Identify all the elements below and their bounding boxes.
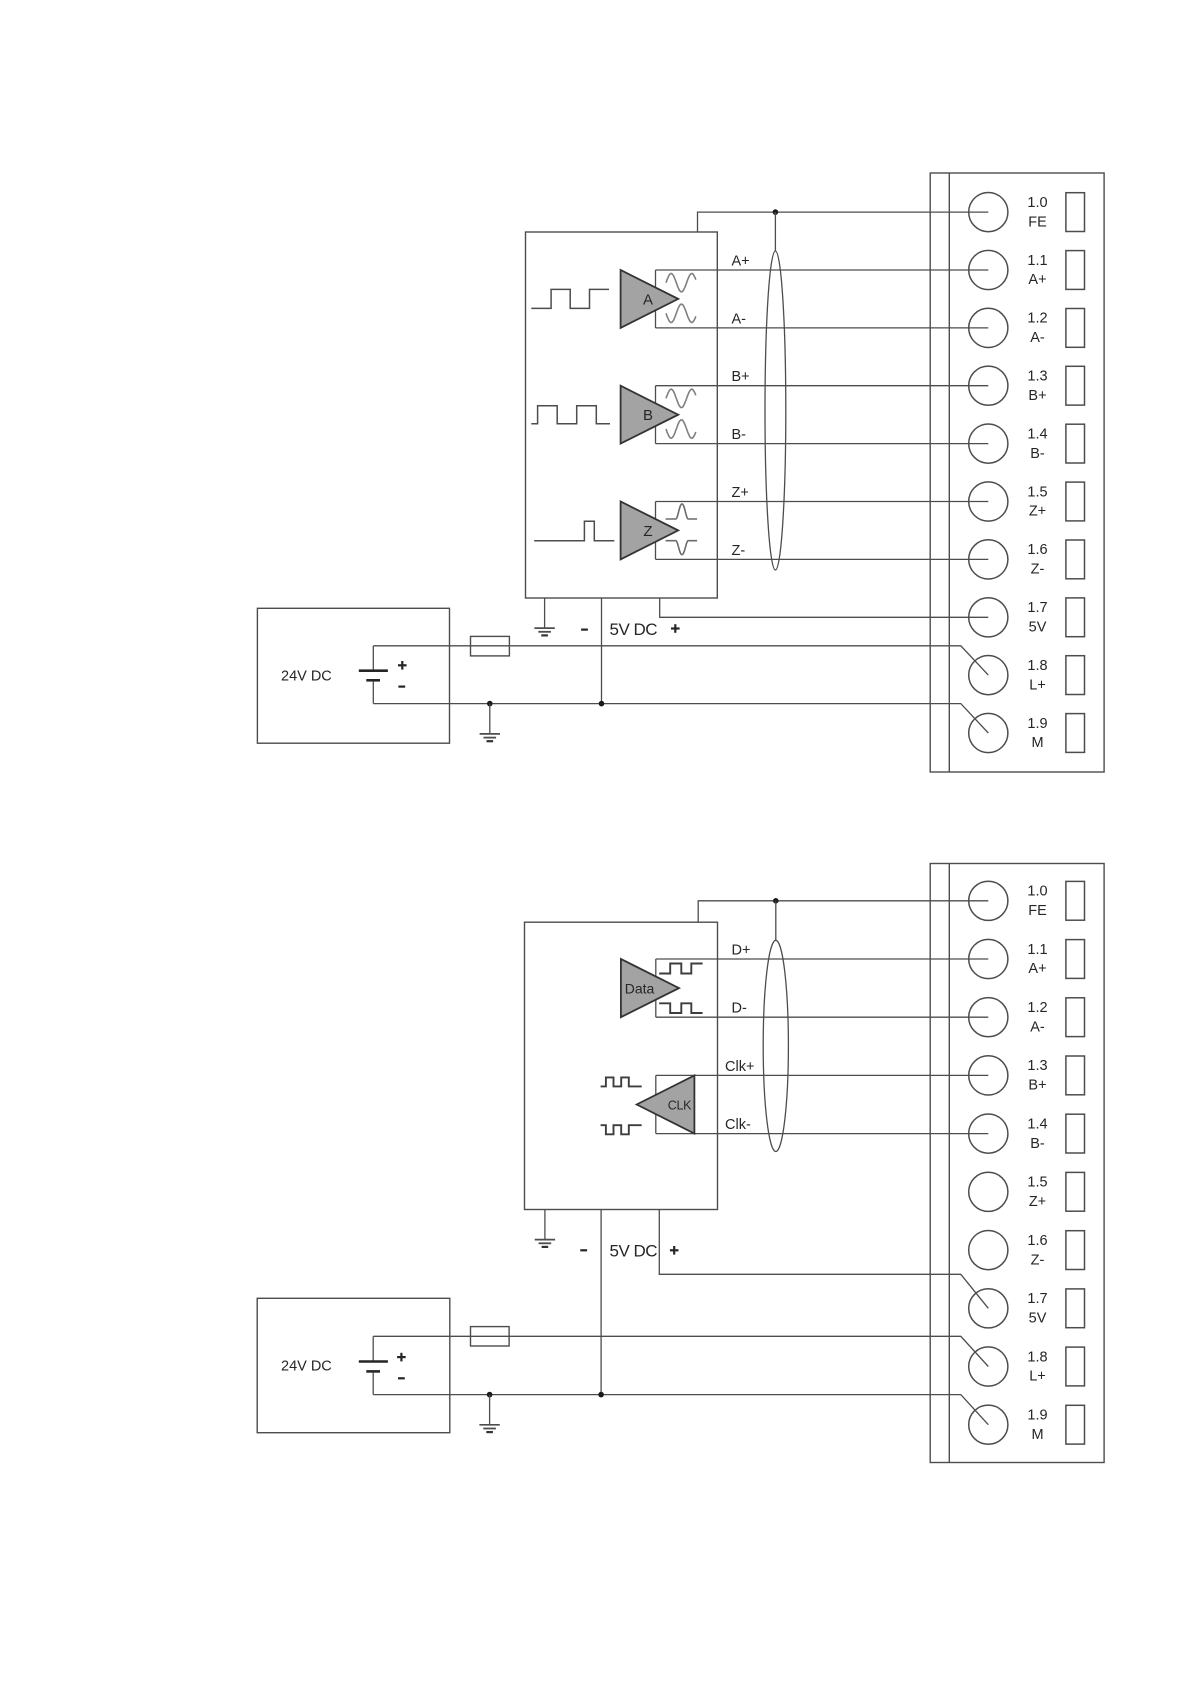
svg-text:1.4: 1.4 bbox=[1027, 426, 1047, 442]
terminal X2.1.1 A+ bbox=[969, 939, 1085, 978]
svg-text:1.7: 1.7 bbox=[1027, 600, 1047, 616]
svg-text:1.5: 1.5 bbox=[1027, 484, 1047, 500]
encoder box U2 bbox=[525, 922, 718, 1209]
wire Z- bbox=[656, 558, 989, 560]
amplifier A bbox=[621, 270, 679, 328]
amplifier Data bbox=[621, 959, 679, 1017]
svg-text:Z+: Z+ bbox=[1029, 504, 1046, 520]
svg-text:1.8: 1.8 bbox=[1027, 1349, 1047, 1365]
terminal X1.1.0 FE bbox=[969, 193, 1085, 232]
svg-text:A-: A- bbox=[732, 311, 747, 327]
svg-text:1.6: 1.6 bbox=[1027, 1233, 1047, 1249]
svg-text:1.3: 1.3 bbox=[1027, 369, 1047, 385]
svg-text:A+: A+ bbox=[1028, 272, 1046, 288]
battery BT1 bbox=[359, 646, 407, 704]
fuse F2 bbox=[471, 1327, 510, 1346]
waveform D+ bbox=[659, 964, 702, 974]
svg-text:1.6: 1.6 bbox=[1027, 542, 1047, 558]
svg-text:M: M bbox=[1031, 735, 1043, 751]
svg-text:D+: D+ bbox=[732, 943, 751, 959]
ground encoder 2 bbox=[535, 1210, 555, 1247]
waveform Clk+ bbox=[601, 1077, 642, 1086]
svg-text:1.1: 1.1 bbox=[1027, 942, 1047, 958]
terminal X1.1.3 B+ bbox=[969, 366, 1085, 405]
input waveform Z bbox=[534, 521, 614, 541]
label minus 1 bbox=[581, 628, 588, 630]
wire Clk+ bbox=[656, 1074, 989, 1076]
svg-text:Z-: Z- bbox=[1031, 1252, 1045, 1268]
output box CLK left edge bbox=[655, 1075, 657, 1133]
wire A- bbox=[656, 327, 989, 329]
terminal X2.1.3 B+ bbox=[969, 1056, 1085, 1095]
svg-text:B+: B+ bbox=[1028, 1078, 1046, 1094]
24V DC source box 2 bbox=[257, 1298, 450, 1432]
terminal block X1 outline bbox=[930, 173, 1104, 772]
24V DC source box 1 bbox=[257, 608, 449, 743]
terminal X1.1.9 M bbox=[969, 713, 1085, 752]
junction dot M minus 1 bbox=[599, 701, 605, 707]
output box A left edge bbox=[655, 270, 657, 328]
waveform D- bbox=[659, 1003, 702, 1013]
svg-text:B: B bbox=[643, 407, 653, 424]
svg-text:CLK: CLK bbox=[668, 1099, 692, 1113]
wire D- bbox=[656, 1016, 989, 1018]
terminal X2.1.4 B- bbox=[969, 1114, 1085, 1153]
svg-text:Z: Z bbox=[643, 523, 652, 540]
pulse wave Z+ bbox=[666, 504, 698, 519]
svg-text:Clk+: Clk+ bbox=[725, 1059, 754, 1075]
wire M 2 bbox=[373, 1395, 988, 1425]
junction dot M ground 2 bbox=[487, 1392, 493, 1398]
amplifier Z bbox=[621, 502, 679, 560]
wire FE 2 bbox=[698, 901, 988, 922]
svg-text:5V: 5V bbox=[1029, 620, 1047, 636]
terminal X1.1.2 A- bbox=[969, 308, 1085, 347]
svg-text:Z-: Z- bbox=[732, 543, 746, 559]
svg-text:1.9: 1.9 bbox=[1027, 716, 1047, 732]
svg-text:1.0: 1.0 bbox=[1027, 195, 1047, 211]
svg-text:24V DC: 24V DC bbox=[281, 1359, 332, 1375]
terminal X2.1.9 M bbox=[969, 1405, 1085, 1444]
output box Data left edge bbox=[655, 959, 657, 1017]
svg-text:1.5: 1.5 bbox=[1027, 1175, 1047, 1191]
svg-text:D-: D- bbox=[732, 1001, 747, 1017]
svg-text:B-: B- bbox=[732, 427, 747, 443]
svg-text:1.1: 1.1 bbox=[1027, 253, 1047, 269]
svg-text:1.3: 1.3 bbox=[1027, 1058, 1047, 1074]
input waveform A bbox=[531, 289, 609, 308]
battery BT2 bbox=[359, 1336, 406, 1394]
wire shield drain 2 bbox=[775, 901, 777, 941]
svg-text:1.9: 1.9 bbox=[1027, 1408, 1047, 1424]
wire B+ bbox=[656, 385, 989, 387]
svg-text:1.7: 1.7 bbox=[1027, 1291, 1047, 1307]
svg-text:1.2: 1.2 bbox=[1027, 311, 1047, 327]
svg-text:B-: B- bbox=[1030, 446, 1045, 462]
svg-text:L+: L+ bbox=[1029, 1369, 1046, 1385]
output box Z left edge bbox=[655, 502, 657, 560]
sine wave B- bbox=[666, 420, 696, 438]
svg-text:Clk-: Clk- bbox=[725, 1117, 751, 1133]
svg-text:5V: 5V bbox=[1029, 1311, 1047, 1327]
svg-text:24V DC: 24V DC bbox=[281, 669, 332, 685]
svg-text:A+: A+ bbox=[1028, 961, 1046, 977]
svg-text:1.4: 1.4 bbox=[1027, 1116, 1047, 1132]
junction dot FE 2 bbox=[773, 898, 779, 904]
terminal X1.1.6 Z- bbox=[969, 540, 1085, 579]
terminal X2.1.0 FE bbox=[969, 881, 1085, 920]
wire shield drain bbox=[774, 212, 776, 251]
terminal X1.1.8 L+ bbox=[969, 656, 1085, 695]
svg-text:5V DC: 5V DC bbox=[610, 620, 658, 639]
svg-text:FE: FE bbox=[1028, 903, 1047, 919]
svg-text:Data: Data bbox=[625, 980, 655, 996]
cable shield ellipse 2 bbox=[763, 940, 788, 1151]
label plus 1 bbox=[671, 624, 680, 633]
terminal X2.1.7 5V bbox=[969, 1289, 1085, 1328]
waveform Clk- bbox=[601, 1125, 642, 1134]
junction dot FE bbox=[773, 209, 779, 215]
svg-text:B+: B+ bbox=[732, 369, 750, 385]
terminal X1.1.7 5V bbox=[969, 598, 1085, 637]
terminal X1.1.4 B- bbox=[969, 424, 1085, 463]
wire 5V+ 2 bbox=[659, 1210, 988, 1309]
encoder box U1 bbox=[526, 232, 718, 598]
input waveform B bbox=[531, 406, 610, 424]
ground M 2 bbox=[479, 1395, 499, 1433]
wire FE bbox=[698, 212, 989, 232]
sine wave A+ bbox=[666, 274, 696, 292]
svg-text:Z+: Z+ bbox=[732, 485, 749, 501]
svg-text:A-: A- bbox=[1030, 330, 1045, 346]
terminal X2.1.2 A- bbox=[969, 998, 1085, 1037]
terminal X1.1.5 Z+ bbox=[969, 482, 1085, 521]
wire A+ bbox=[656, 269, 989, 271]
amplifier CLK bbox=[637, 1075, 695, 1133]
terminal X1.1.1 A+ bbox=[969, 250, 1085, 289]
cable shield ellipse bbox=[765, 251, 786, 570]
svg-text:5V DC: 5V DC bbox=[610, 1242, 658, 1261]
sine wave B+ bbox=[666, 389, 696, 407]
svg-text:1.2: 1.2 bbox=[1027, 1000, 1047, 1016]
sine wave A- bbox=[666, 304, 696, 322]
label plus 2 bbox=[670, 1246, 679, 1255]
wire Clk- bbox=[656, 1133, 989, 1135]
wire 5V- 2 bbox=[600, 1210, 602, 1395]
svg-text:A-: A- bbox=[1030, 1019, 1045, 1035]
pulse wave Z- bbox=[666, 541, 698, 555]
svg-text:A: A bbox=[643, 291, 653, 308]
wire L+ 1 bbox=[373, 646, 988, 675]
wire M 1 bbox=[373, 704, 988, 733]
svg-text:M: M bbox=[1031, 1427, 1043, 1443]
wire 5V+ bbox=[660, 598, 989, 617]
terminal X2.1.5 Z+ bbox=[969, 1172, 1085, 1211]
wire L+ 2 bbox=[373, 1336, 988, 1366]
ground M 1 bbox=[480, 704, 500, 742]
terminal X2.1.6 Z- bbox=[969, 1231, 1085, 1270]
svg-text:FE: FE bbox=[1028, 214, 1047, 230]
svg-text:A+: A+ bbox=[732, 254, 750, 270]
svg-text:L+: L+ bbox=[1029, 677, 1046, 693]
ground encoder 1 bbox=[534, 598, 554, 635]
svg-text:Z+: Z+ bbox=[1029, 1194, 1046, 1210]
amplifier B bbox=[621, 386, 679, 444]
fuse F1 bbox=[471, 636, 510, 656]
wire D+ bbox=[656, 958, 989, 960]
label minus 2 bbox=[580, 1249, 587, 1251]
svg-text:B-: B- bbox=[1030, 1136, 1045, 1152]
svg-text:Z-: Z- bbox=[1031, 562, 1045, 578]
terminal block X2 outline bbox=[930, 864, 1104, 1463]
junction dot M minus 2 bbox=[598, 1392, 604, 1398]
terminal X2.1.8 L+ bbox=[969, 1347, 1085, 1386]
wire Z+ bbox=[656, 501, 989, 503]
svg-text:1.0: 1.0 bbox=[1027, 884, 1047, 900]
svg-text:1.8: 1.8 bbox=[1027, 658, 1047, 674]
wire 5V- (0V) bbox=[601, 598, 603, 704]
wire B- bbox=[656, 443, 989, 445]
svg-text:B+: B+ bbox=[1028, 388, 1046, 404]
junction dot M ground 1 bbox=[487, 701, 493, 707]
output box B left edge bbox=[655, 386, 657, 444]
